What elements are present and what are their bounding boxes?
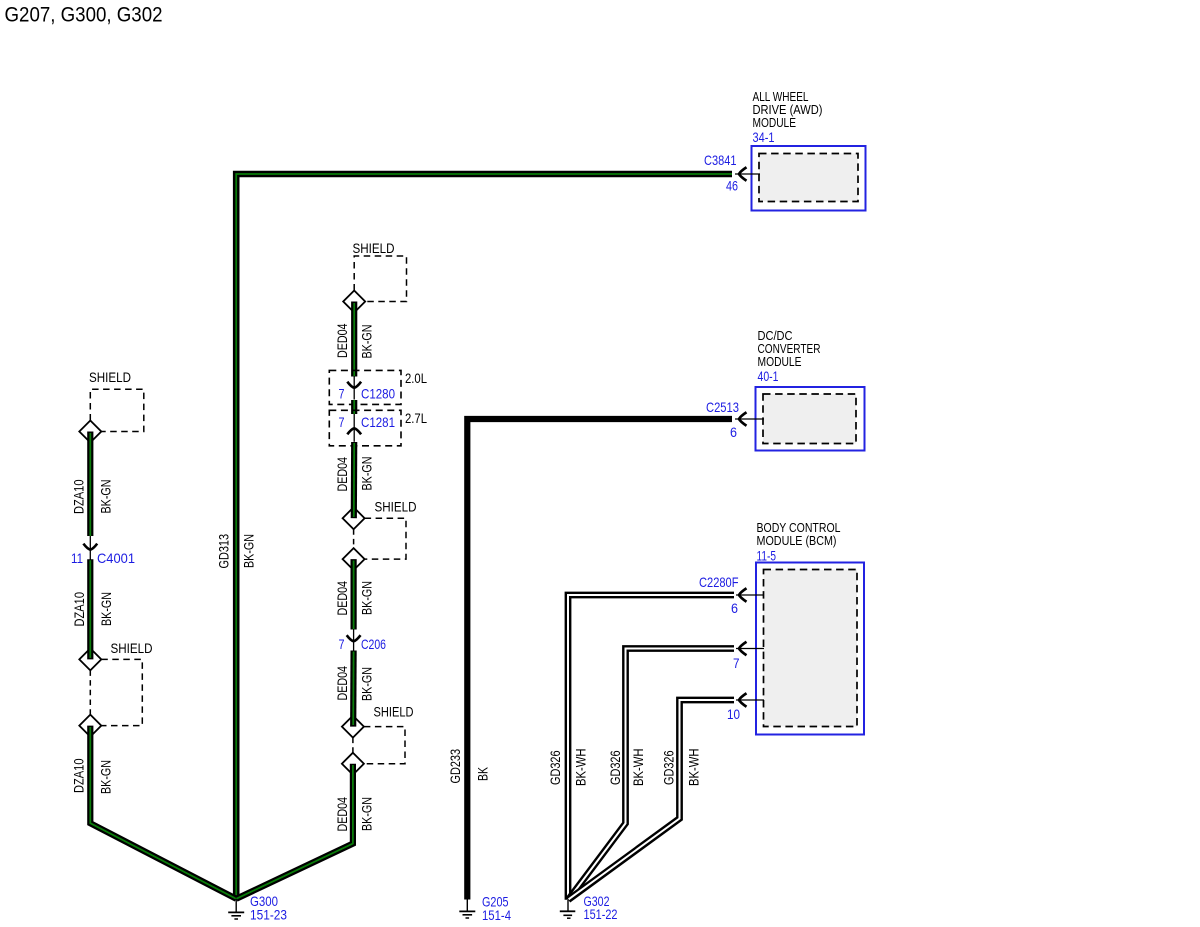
- label BODY CONTROL MODULE (BCM) 11-5: [757, 521, 841, 564]
- svg-text:CONVERTER: CONVERTER: [758, 342, 821, 356]
- svg-text:7: 7: [339, 385, 345, 401]
- shield diamond (middle top): [343, 291, 365, 313]
- svg-text:7: 7: [339, 636, 345, 652]
- left shield dashed box (top, DZA10): [90, 389, 144, 431]
- svg-text:40-1: 40-1: [758, 368, 779, 384]
- wire label BK-GN (DZA10 #3): [98, 760, 114, 794]
- pin number 11 (C4001): [71, 550, 83, 566]
- wire DZA10 BK-GN segment B (C4001 to lower shield): [87, 559, 93, 659]
- svg-text:BK-WH: BK-WH: [573, 749, 589, 787]
- wire label DED04 #5: [334, 797, 350, 832]
- pin 6 lead line into BCM: [736, 594, 764, 596]
- svg-text:C2280F: C2280F: [699, 574, 739, 590]
- svg-text:DZA10: DZA10: [71, 758, 87, 793]
- svg-text:C4001: C4001: [97, 550, 135, 566]
- svg-text:C3841: C3841: [704, 152, 737, 168]
- pin 10 lead line into BCM: [736, 699, 764, 701]
- pin number 6 (C2513): [730, 424, 737, 440]
- middle shield loop 2 dashed: [354, 518, 406, 559]
- wire label DZA10 #2: [71, 592, 87, 627]
- shield diamond (middle 2, lower): [343, 548, 365, 570]
- wire label GD326 #3: [661, 750, 677, 785]
- left shield loop (lower, DZA10) dashed: [90, 659, 142, 725]
- svg-text:BK: BK: [475, 767, 491, 781]
- pin number 7 (C1281): [339, 414, 345, 430]
- wire GD313 BK-GN from C3841 to G300 (horizontal + vertical run): [236, 174, 732, 899]
- svg-text:2.7L: 2.7L: [405, 410, 427, 426]
- label SHIELD (middle top): [353, 240, 395, 256]
- ALL WHEEL DRIVE (AWD) MODULE box: [752, 146, 866, 211]
- svg-text:BK-GN: BK-GN: [359, 581, 375, 615]
- svg-text:DED04: DED04: [334, 797, 350, 832]
- svg-text:C206: C206: [361, 636, 386, 652]
- svg-text:BK-WH: BK-WH: [686, 749, 702, 787]
- svg-text:6: 6: [730, 424, 737, 440]
- label SHIELD (left lower): [111, 640, 153, 656]
- wire label BK-GN (GD313): [241, 534, 257, 568]
- svg-text:BK-WH: BK-WH: [630, 749, 646, 787]
- svg-text:BK-GN: BK-GN: [359, 457, 375, 491]
- wire GD326 BK-WH pin 7 to G302: [568, 649, 734, 900]
- wire DED04 BK-GN segment 1 (shield to C1280): [351, 302, 357, 377]
- wire GD233 BK from C2513 to G205: [467, 419, 732, 900]
- wire label BK-GN (DZA10 #2): [98, 592, 114, 626]
- label ALL WHEEL DRIVE (AWD) MODULE 34-1: [753, 90, 823, 145]
- shield diamond (left top): [79, 421, 101, 443]
- middle shield loop 3 dashed: [353, 727, 405, 764]
- wire label GD326 #2: [607, 750, 623, 785]
- svg-text:SHIELD: SHIELD: [375, 499, 417, 515]
- node label G205 151-4: [482, 894, 511, 924]
- svg-text:DRIVE (AWD): DRIVE (AWD): [753, 103, 823, 117]
- svg-text:DED04: DED04: [334, 323, 350, 358]
- svg-text:151-22: 151-22: [584, 906, 618, 922]
- label SHIELD (middle 3): [374, 704, 414, 720]
- svg-text:BK-GN: BK-GN: [98, 760, 114, 794]
- wire BK-GN between C1280 and C1281: [351, 400, 357, 414]
- arrow at C1281 (pointing up): [347, 414, 361, 442]
- svg-text:MODULE: MODULE: [753, 116, 797, 130]
- wire label GD326 #1: [547, 750, 563, 785]
- pin 6 arrow at C2513: [739, 412, 747, 425]
- svg-text:SHIELD: SHIELD: [111, 640, 153, 656]
- svg-text:151-4: 151-4: [482, 907, 511, 923]
- label 2.0L: [405, 370, 427, 386]
- svg-text:6: 6: [731, 600, 738, 616]
- svg-text:7: 7: [733, 655, 740, 671]
- svg-text:GD326: GD326: [661, 750, 677, 785]
- svg-text:GD233: GD233: [447, 749, 463, 784]
- svg-text:DED04: DED04: [334, 666, 350, 701]
- wire label GD313: [216, 534, 232, 569]
- svg-text:BK-GN: BK-GN: [98, 480, 114, 514]
- wire DED04 BK-GN segment 5 (shield 3 to G300): [236, 764, 353, 899]
- connector label C206: [361, 636, 386, 652]
- svg-text:34-1: 34-1: [753, 129, 775, 145]
- svg-text:SHIELD: SHIELD: [89, 369, 131, 385]
- shield diamond (middle 3, upper): [342, 716, 364, 738]
- label SHIELD (middle 2): [375, 499, 417, 515]
- shield diamond (middle 3, lower): [342, 753, 364, 775]
- svg-text:C1281: C1281: [361, 414, 395, 430]
- svg-text:7: 7: [339, 414, 345, 430]
- middle shield dashed box (top, DED04): [354, 256, 406, 302]
- arrow at C206 (pointing down): [347, 629, 361, 651]
- pin number 7 (C2280F): [733, 655, 740, 671]
- svg-text:SHIELD: SHIELD: [374, 704, 414, 720]
- label 2.7L: [405, 410, 427, 426]
- pin number 10 (C2280F): [727, 706, 740, 722]
- pin number 6 (C2280F): [731, 600, 738, 616]
- shield diamond (left lower, lower): [79, 715, 101, 737]
- DC/DC CONVERTER MODULE box: [756, 387, 865, 451]
- svg-text:G207, G300, G302: G207, G300, G302: [5, 4, 163, 27]
- wire label BK-GN (DZA10 #1): [98, 480, 114, 514]
- svg-text:DED04: DED04: [334, 581, 350, 616]
- wire label BK-WH #1: [573, 749, 589, 787]
- svg-text:DZA10: DZA10: [71, 479, 87, 514]
- svg-text:BODY CONTROL: BODY CONTROL: [757, 521, 841, 535]
- pin 7 lead line into BCM: [736, 648, 764, 650]
- svg-text:46: 46: [726, 178, 738, 194]
- svg-text:11-5: 11-5: [757, 548, 777, 564]
- wire label DED04 #1: [334, 323, 350, 358]
- svg-text:GD326: GD326: [607, 750, 623, 785]
- arrow at C4001 (pointing down): [83, 536, 97, 560]
- pin 46 lead line into AWD module: [735, 173, 760, 175]
- svg-text:MODULE: MODULE: [758, 355, 802, 369]
- wire DED04 BK-GN segment 2 (C1281 to shield 2): [351, 442, 358, 518]
- wire label BK-GN (DED04 #4): [359, 667, 375, 701]
- connector C1281 dashed box: [329, 410, 401, 446]
- wire DED04 BK-GN segment 3 (shield 2 to C206): [351, 559, 357, 629]
- wire GD326 BK-WH pin 6 to G302 (vertical run): [568, 595, 734, 900]
- ground G302 symbol: [560, 900, 576, 918]
- svg-text:BK-GN: BK-GN: [359, 325, 375, 359]
- wire label BK-GN (DED04 #5): [359, 797, 375, 831]
- node label G302 151-22: [584, 893, 618, 922]
- connector label C1280: [361, 385, 395, 401]
- node label G300 151-23: [250, 893, 287, 923]
- label SHIELD (left top): [89, 369, 131, 385]
- svg-text:10: 10: [727, 706, 740, 722]
- pin number 7 (C206): [339, 636, 345, 652]
- shield diamond (left lower, upper): [79, 648, 101, 670]
- svg-text:2.0L: 2.0L: [405, 370, 427, 386]
- wire label BK-WH #3: [686, 749, 702, 787]
- svg-text:BK-GN: BK-GN: [98, 592, 114, 626]
- svg-text:C1280: C1280: [361, 385, 395, 401]
- svg-text:11: 11: [71, 550, 83, 566]
- svg-text:151-23: 151-23: [250, 907, 287, 923]
- pin 7 arrow at C2280F: [739, 642, 747, 655]
- svg-text:DED04: DED04: [334, 457, 350, 492]
- connector label C3841: [704, 152, 737, 168]
- connector label C2280F: [699, 574, 739, 590]
- wire label DZA10 #1: [71, 479, 87, 514]
- wire label DZA10 #3: [71, 758, 87, 793]
- arrow at C1280 (pointing down): [347, 376, 361, 400]
- wire label BK (GD233): [475, 767, 491, 781]
- pin 6 arrow at C2280F: [739, 588, 747, 601]
- wire DED04 BK-GN segment 4 (C206 to shield 3): [350, 651, 357, 727]
- title G207, G300, G302: [5, 4, 163, 27]
- pin 46 arrow at C3841: [739, 167, 747, 180]
- pin 6 lead line into DC/DC module: [735, 418, 764, 420]
- wire label BK-WH #2: [630, 749, 646, 787]
- wire label DED04 #3: [334, 581, 350, 616]
- wire label BK-GN (DED04 #1): [359, 325, 375, 359]
- pin 10 arrow at C2280F: [739, 693, 747, 706]
- wire label BK-GN (DED04 #2): [359, 457, 375, 491]
- connector label C4001: [97, 550, 135, 566]
- svg-text:C2513: C2513: [706, 399, 739, 415]
- svg-text:GD326: GD326: [547, 750, 563, 785]
- svg-text:BK-GN: BK-GN: [359, 797, 375, 831]
- svg-text:DC/DC: DC/DC: [758, 329, 793, 343]
- svg-text:ALL WHEEL: ALL WHEEL: [753, 90, 809, 104]
- BODY CONTROL MODULE (BCM) box: [756, 563, 864, 735]
- ground G205 symbol: [459, 899, 475, 918]
- wire label GD233: [447, 749, 463, 784]
- wire DZA10 BK-GN segment A (shield to C4001): [87, 432, 93, 537]
- ground G300 symbol: [228, 899, 244, 919]
- wire GD326 BK-WH pin 10 to G302: [568, 700, 734, 900]
- label DC/DC CONVERTER MODULE 40-1: [758, 329, 821, 384]
- wire DZA10 BK-GN segment C (shield to G300): [90, 726, 236, 899]
- svg-text:SHIELD: SHIELD: [353, 240, 395, 256]
- connector label C2513: [706, 399, 739, 415]
- pin number 46: [726, 178, 738, 194]
- wire label DED04 #2: [334, 457, 350, 492]
- pin number 7 (C1280): [339, 385, 345, 401]
- wire label DED04 #4: [334, 666, 350, 701]
- connector C1280 dashed box: [329, 370, 401, 404]
- wire label BK-GN (DED04 #3): [359, 581, 375, 615]
- shield diamond (middle 2, upper): [343, 507, 365, 529]
- svg-text:DZA10: DZA10: [71, 592, 87, 627]
- svg-text:BK-GN: BK-GN: [359, 667, 375, 701]
- svg-text:GD313: GD313: [216, 534, 232, 569]
- connector label C1281: [361, 414, 395, 430]
- svg-text:MODULE (BCM): MODULE (BCM): [757, 534, 837, 548]
- svg-text:BK-GN: BK-GN: [241, 534, 257, 568]
